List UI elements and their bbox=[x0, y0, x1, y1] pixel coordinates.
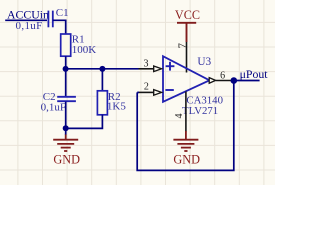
svg-text:4: 4 bbox=[174, 114, 185, 119]
wire stub corner to pin 2 bbox=[137, 91, 139, 93]
op-amp U3 triangle bbox=[163, 56, 210, 102]
svg-text:1K5: 1K5 bbox=[107, 100, 126, 112]
ground GND1 bbox=[53, 135, 78, 152]
svg-text:GND: GND bbox=[173, 152, 200, 166]
svg-text:6: 6 bbox=[220, 71, 225, 82]
pin 6 wire bbox=[216, 80, 234, 82]
pin 6 output arrow bbox=[209, 78, 215, 84]
capacitor C2 bbox=[57, 97, 76, 101]
svg-text:GND: GND bbox=[53, 152, 80, 166]
svg-text:TLV271: TLV271 bbox=[182, 105, 218, 117]
svg-text:7: 7 bbox=[176, 43, 188, 49]
svg-text:C1: C1 bbox=[56, 7, 69, 19]
svg-text:3: 3 bbox=[144, 58, 149, 69]
svg-text:2: 2 bbox=[144, 81, 149, 92]
sheet background bbox=[0, 0, 275, 185]
wire node B to R2 bbox=[101, 69, 103, 91]
svg-text:100K: 100K bbox=[72, 44, 97, 56]
junction node B bbox=[99, 66, 105, 72]
resistor R2 bbox=[97, 91, 107, 115]
svg-text:U3: U3 bbox=[197, 56, 211, 68]
wire ACCUin net (underline of label) bbox=[5, 19, 47, 21]
wire to GND 1 bbox=[65, 128, 67, 135]
pin 7 (V+) bbox=[186, 42, 188, 73]
wire node A to C2 bbox=[65, 69, 67, 96]
svg-text:VCC: VCC bbox=[175, 8, 200, 22]
junction node C (GND tap) bbox=[63, 125, 69, 131]
svg-text:0,1uF: 0,1uF bbox=[41, 102, 66, 114]
resistor R1 bbox=[61, 34, 71, 56]
pin 4 (V-) bbox=[185, 92, 187, 132]
pin 3 wire from node A bbox=[139, 68, 154, 70]
wire output to uPout bbox=[234, 80, 260, 82]
pin 3 arrow bbox=[154, 66, 162, 72]
capacitor C1 bbox=[48, 11, 52, 28]
pin 2 wire from feedback bbox=[139, 91, 154, 93]
wire node row to op-amp pin 3 bbox=[66, 68, 139, 70]
power VCC symbol bbox=[177, 23, 196, 42]
wire R1 to node A bbox=[65, 56, 67, 69]
wire C1 to R1 bbox=[53, 20, 66, 34]
feedback wire pin2 loop bbox=[137, 81, 234, 171]
svg-text:μPout: μPout bbox=[240, 67, 269, 81]
ground GND2 bbox=[173, 131, 198, 151]
junction output node bbox=[231, 77, 238, 84]
wire R2 to bottom rail bbox=[66, 115, 103, 129]
plus marking bbox=[166, 62, 175, 71]
pin 2 arrow bbox=[154, 90, 162, 96]
svg-text:0,1uF: 0,1uF bbox=[16, 20, 43, 32]
minus marking bbox=[165, 89, 173, 91]
wire C2 to bottom rail bbox=[65, 102, 67, 129]
junction node A bbox=[63, 66, 69, 72]
